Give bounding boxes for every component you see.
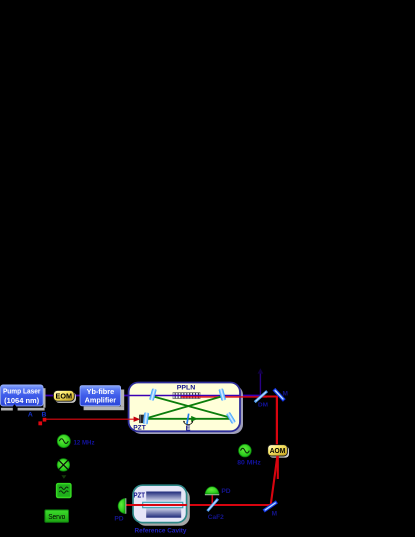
svg-text:Yb-fibre: Yb-fibre xyxy=(87,387,115,396)
reference cavity box xyxy=(133,485,187,522)
80 MHz oscillator xyxy=(239,444,252,457)
E-field indicator: blue polarization line xyxy=(187,414,189,425)
reference cavity bore xyxy=(143,502,183,507)
servo box xyxy=(45,510,69,522)
servo feedback arrowhead xyxy=(134,417,141,422)
green beam TL mirror to BR mirror xyxy=(153,396,231,417)
wire: red beam DM to M then down to AOM xyxy=(260,397,277,446)
svg-text:PZT: PZT xyxy=(133,491,145,500)
mirror M (bottom) xyxy=(264,502,277,511)
svg-text:DM: DM xyxy=(258,402,268,408)
svg-text:B: B xyxy=(42,412,47,419)
servo feedback line to PZT (red) xyxy=(45,418,134,420)
svg-text:Pump Laser: Pump Laser xyxy=(3,387,41,396)
mirror TL of cavity xyxy=(149,388,157,401)
svg-text:(1064 nm): (1064 nm) xyxy=(4,396,40,405)
svg-text:E: E xyxy=(186,423,191,432)
EOM xyxy=(53,390,74,401)
AOM box xyxy=(268,445,288,456)
AOM shadow xyxy=(269,446,289,457)
photodiode PD (left) base xyxy=(125,498,127,513)
svg-text:AOM: AOM xyxy=(270,448,286,455)
arrowhead up (dark) on 1064nm beam xyxy=(258,368,264,373)
svg-text:PD: PD xyxy=(114,516,123,523)
green beam arrowhead xyxy=(191,416,198,422)
E-field curved arrow xyxy=(184,422,193,425)
svg-text:PPLN: PPLN xyxy=(177,385,196,392)
svg-text:Reference Cavity: Reference Cavity xyxy=(135,528,187,535)
svg-text:EOM: EOM xyxy=(56,392,73,401)
mirror TR of cavity xyxy=(218,388,226,401)
svg-text:Amplifier: Amplifier xyxy=(85,396,117,405)
red beam inside reference cavity xyxy=(125,504,187,506)
svg-text:12 MHz: 12 MHz xyxy=(74,439,96,446)
svg-text:PZT: PZT xyxy=(133,424,146,431)
svg-text:A: A xyxy=(28,412,33,419)
wire: 532nm beam generated in crystal to DM xyxy=(181,396,267,398)
mixer xyxy=(57,459,69,471)
svg-text:80 MHz: 80 MHz xyxy=(237,459,261,466)
CaF2 window xyxy=(207,499,218,511)
svg-text:CaF2: CaF2 xyxy=(208,514,224,521)
SHG cavity box xyxy=(129,383,240,432)
wire arrow mixer to filter (faint) xyxy=(61,475,66,479)
Yb-fibre amplifier xyxy=(80,386,121,406)
PPLN crystal xyxy=(173,393,200,399)
photodiode PD (upper) base xyxy=(205,494,219,496)
wire: main 1064nm beam (purple) from pump laser through EOM, amplifier, cavity to DM xyxy=(43,395,261,397)
dichroic mirror DM xyxy=(255,391,267,402)
pump laser shadow xyxy=(1,408,13,411)
green beam BL mirror to BR mirror xyxy=(147,418,231,420)
Yb-fibre amplifier shadow xyxy=(84,406,125,410)
mirror M (top) xyxy=(274,389,284,400)
low-pass filter xyxy=(57,484,71,498)
servo feedback red dash marks xyxy=(43,418,47,422)
reference cavity shadow xyxy=(136,488,190,525)
SHG cavity shadow xyxy=(132,385,243,434)
mirror BL of cavity (on PZT) xyxy=(143,412,149,424)
green beam TR mirror to BL mirror xyxy=(147,396,223,418)
svg-text:M: M xyxy=(282,391,287,398)
wire: 1064nm reflected beam going up from DM xyxy=(259,373,261,396)
svg-text:M: M xyxy=(272,510,277,517)
svg-text:Servo: Servo xyxy=(48,512,65,521)
photodiode PD (left) dome xyxy=(118,499,125,514)
red pickoff beam up to PD xyxy=(211,495,213,505)
red beam below AOM: zero order (blocked) xyxy=(277,456,279,479)
pump laser box xyxy=(1,385,44,407)
PZT actuator block xyxy=(139,415,144,423)
EOM shadow xyxy=(55,392,76,403)
svg-text:PD: PD xyxy=(221,488,230,495)
reference cavity spacer xyxy=(146,492,181,518)
photodiode PD (upper) dome xyxy=(205,487,219,494)
mirror BR of cavity xyxy=(226,412,236,424)
wire: 1064nm beam inside cavity (redraw over crystal) xyxy=(129,395,240,397)
red beam from bottom mirror through reference cavity to PD xyxy=(125,504,271,506)
red beam below AOM: first order to bottom mirror xyxy=(271,456,278,505)
12 MHz oscillator xyxy=(57,435,70,448)
